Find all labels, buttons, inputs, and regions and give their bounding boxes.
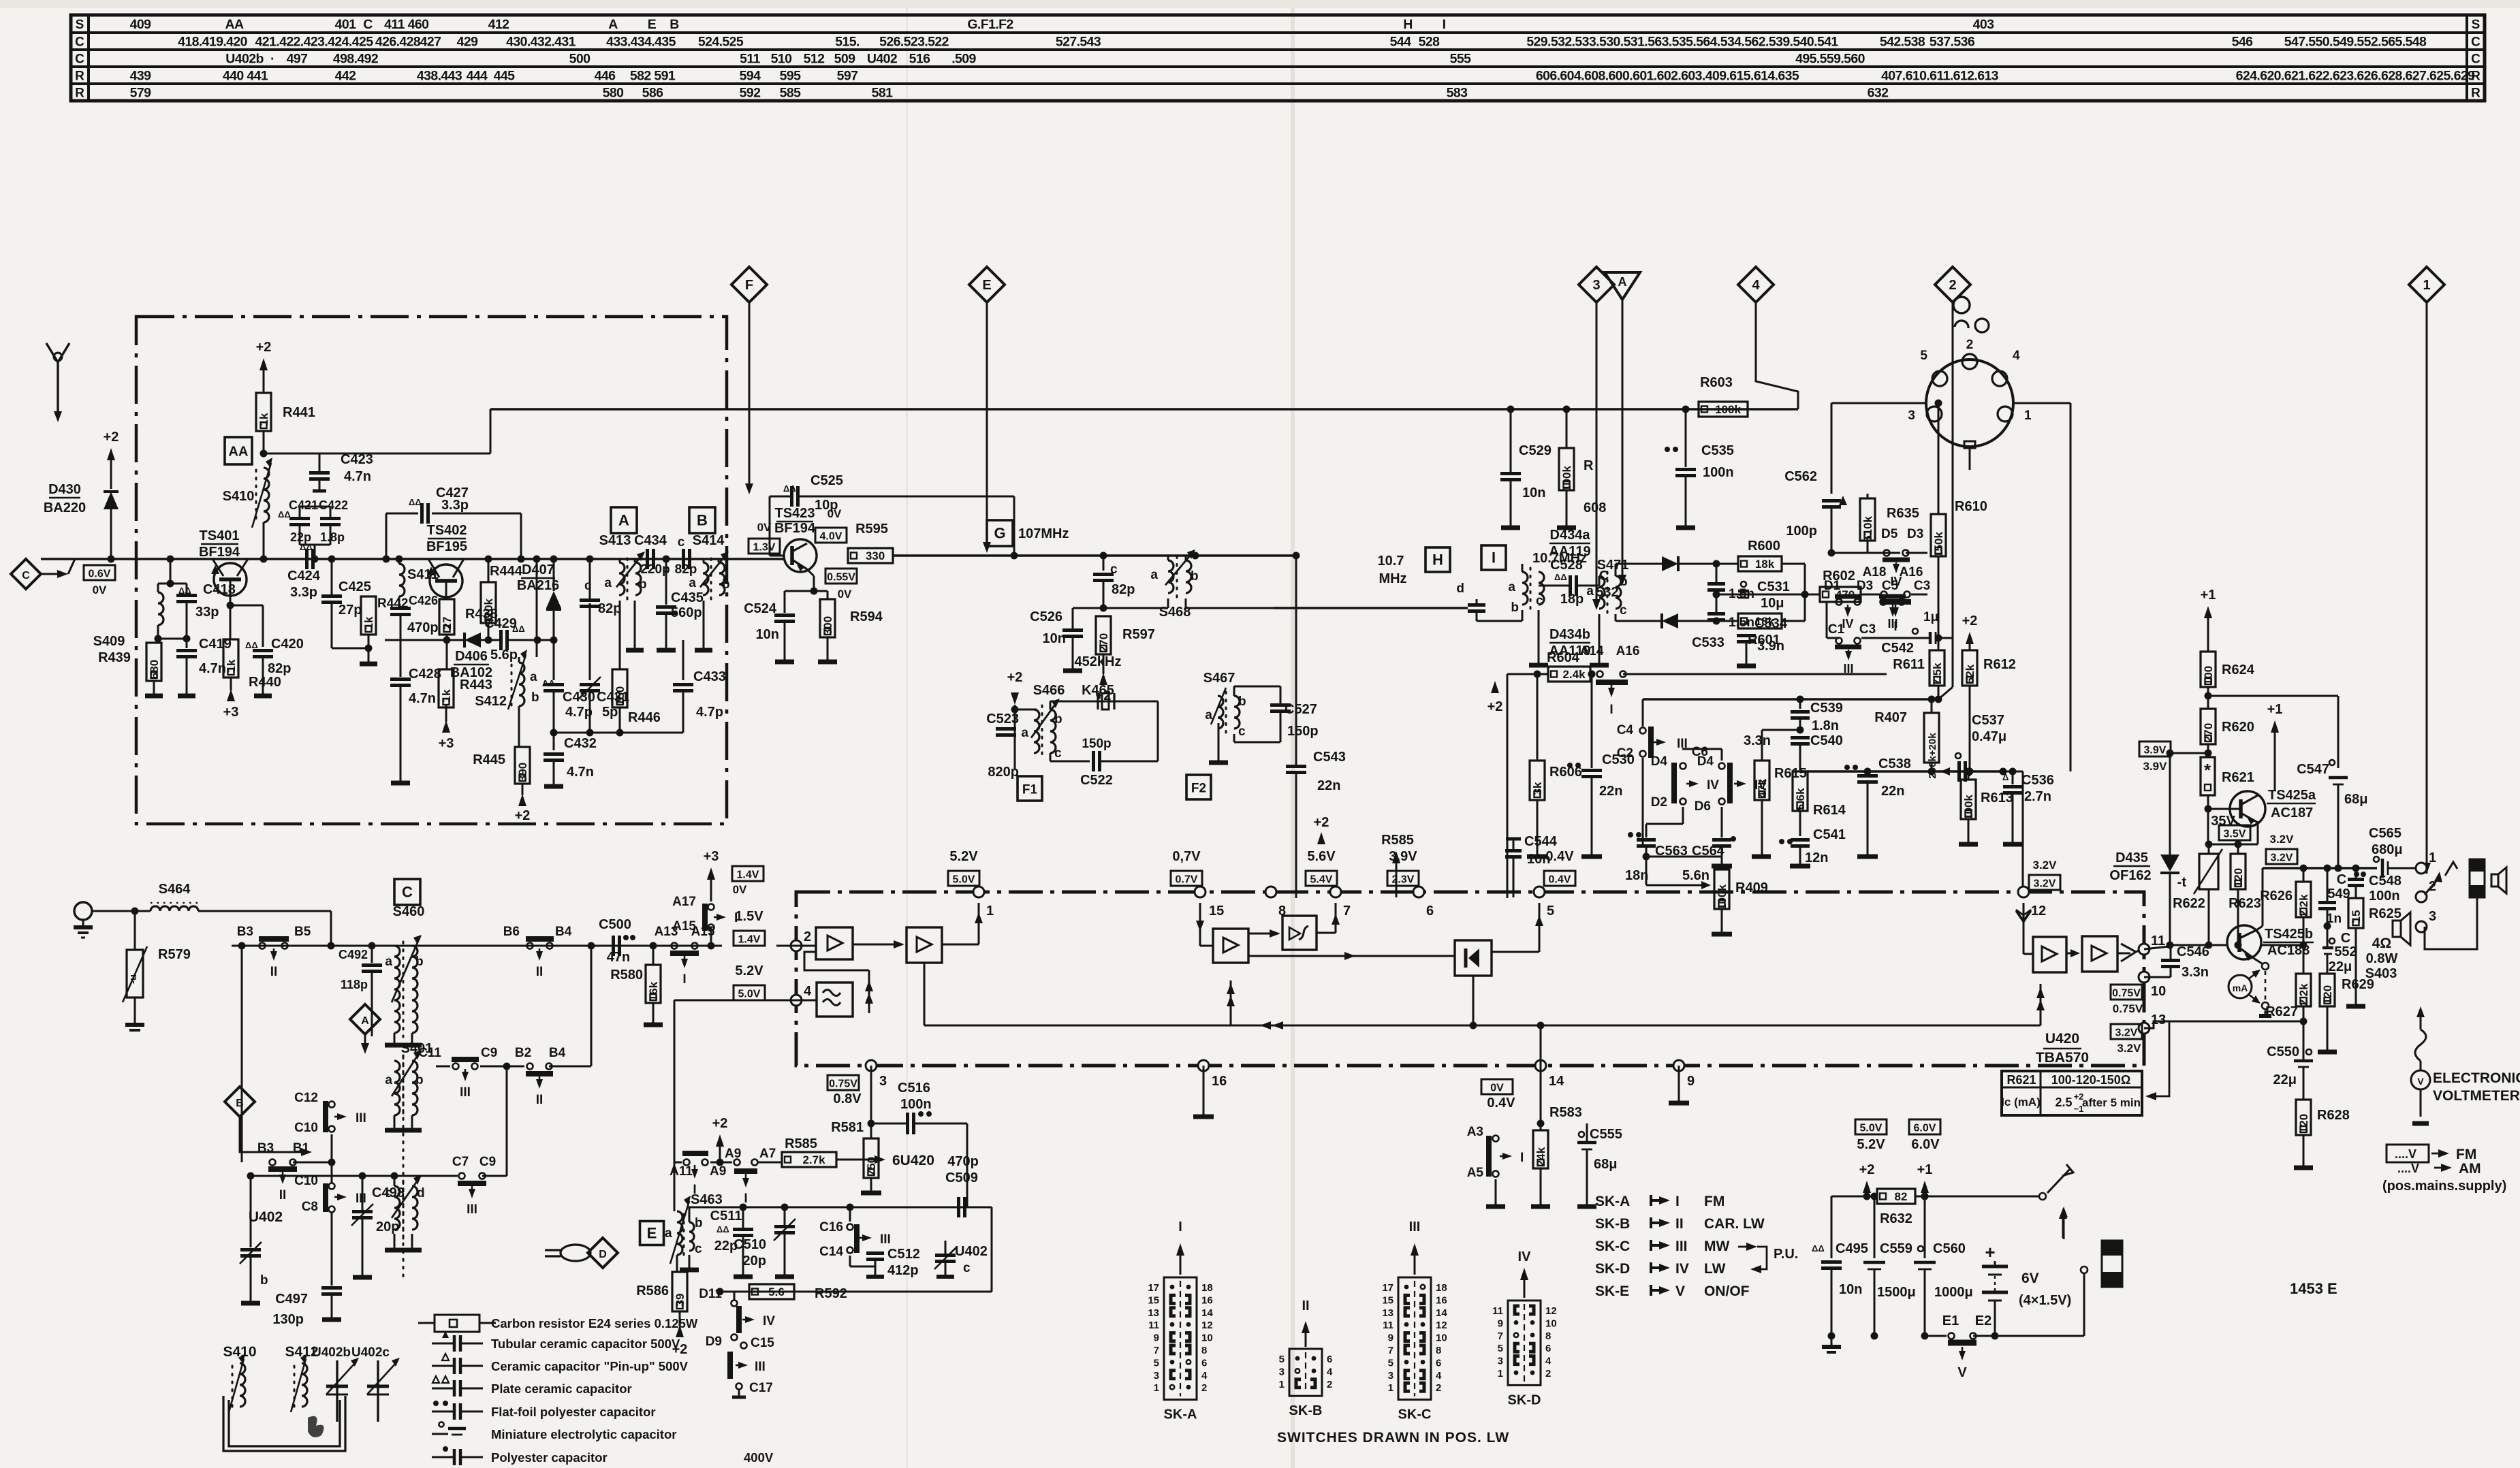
svg-text:16k: 16k xyxy=(647,981,660,1001)
svg-text:C10: C10 xyxy=(294,1121,318,1135)
wire TS425a emitter down xyxy=(2257,823,2259,844)
svg-text:BA102: BA102 xyxy=(450,665,492,680)
legend plate ceramic capacitor xyxy=(432,1388,454,1390)
wire 2 down xyxy=(1952,302,1954,687)
svg-text:C550: C550 xyxy=(2267,1044,2299,1059)
svg-text:220k: 220k xyxy=(482,599,495,624)
wire left supply down xyxy=(1507,674,1509,898)
tuning gang U402c osc xyxy=(935,1254,956,1257)
svg-text:ΔΔ: ΔΔ xyxy=(278,509,291,520)
svg-text:7: 7 xyxy=(1388,1345,1393,1356)
svg-text:I: I xyxy=(1609,703,1613,717)
svg-text:586: 586 xyxy=(642,86,663,101)
svg-text:0.75V: 0.75V xyxy=(829,1079,857,1090)
svg-text:D9: D9 xyxy=(706,1335,722,1349)
capacitor C529 10n xyxy=(1507,406,1515,413)
svg-text:*: * xyxy=(2204,760,2211,780)
svg-text:2: 2 xyxy=(1949,278,1956,293)
resistor R602 470 xyxy=(1744,594,1805,596)
svg-text:R581: R581 xyxy=(831,1120,864,1135)
svg-text:E: E xyxy=(982,278,991,293)
svg-text:AA: AA xyxy=(225,17,244,32)
svg-text:S466: S466 xyxy=(1033,683,1065,698)
svg-text:R: R xyxy=(75,86,84,101)
wire A down xyxy=(1622,300,1624,577)
svg-text:III: III xyxy=(356,1111,366,1126)
svg-text:III: III xyxy=(467,1202,477,1217)
svg-text:D3: D3 xyxy=(1907,527,1923,541)
capacitor C526 82p xyxy=(1100,552,1107,560)
svg-text:10: 10 xyxy=(1201,1333,1213,1344)
wire A11 down to S463 xyxy=(674,1162,676,1211)
wire C537 node xyxy=(1967,771,2023,773)
svg-text:BF195: BF195 xyxy=(426,539,467,554)
svg-text:B2: B2 xyxy=(515,1046,531,1060)
svg-text:C420: C420 xyxy=(271,637,304,652)
svg-text:C562: C562 xyxy=(1784,469,1817,484)
svg-text:I: I xyxy=(682,972,686,987)
audio amp block 5 xyxy=(2033,937,2066,972)
svg-text:I: I xyxy=(1492,549,1496,567)
svg-text:6U420: 6U420 xyxy=(892,1153,934,1168)
svg-text:Polyester capacitor: Polyester capacitor xyxy=(491,1450,608,1465)
svg-text:4.7n: 4.7n xyxy=(409,691,436,706)
svg-text:R624: R624 xyxy=(2222,663,2255,677)
resistor R627 2.2k xyxy=(2296,974,2311,1006)
pin 6 xyxy=(1413,887,1424,897)
svg-text:II: II xyxy=(270,965,278,979)
svg-text:526.523.522: 526.523.522 xyxy=(879,35,949,50)
svg-text:82p: 82p xyxy=(268,661,291,676)
svg-text:SWITCHES DRAWN IN POS. LW: SWITCHES DRAWN IN POS. LW xyxy=(1277,1430,1509,1446)
svg-text:0.4V: 0.4V xyxy=(1545,849,1574,864)
svg-text:22n: 22n xyxy=(1317,778,1340,793)
svg-text:0.55V: 0.55V xyxy=(827,572,855,584)
svg-text:10.7: 10.7 xyxy=(1378,554,1404,569)
svg-text:V: V xyxy=(2417,1076,2424,1087)
svg-text:after 5 min: after 5 min xyxy=(2082,1096,2141,1109)
svg-text:SK-A: SK-A xyxy=(1595,1194,1630,1209)
svg-text:C538: C538 xyxy=(1878,756,1911,771)
switch C4 C2 xyxy=(1642,699,1644,727)
svg-text:c: c xyxy=(695,1242,702,1256)
svg-text:632: 632 xyxy=(1868,86,1889,101)
connector SK-B xyxy=(1289,1349,1322,1396)
wire pin8 supply xyxy=(1270,885,1272,897)
svg-text:Δ: Δ xyxy=(2002,772,2009,782)
capacitor C427 3.3p feedback xyxy=(385,513,388,559)
svg-text:C509: C509 xyxy=(945,1170,978,1185)
capacitor C533 1.5n xyxy=(1716,594,1718,613)
svg-text:S463: S463 xyxy=(691,1192,723,1207)
svg-text:0V: 0V xyxy=(838,588,852,601)
svg-text:R610: R610 xyxy=(1955,499,1987,514)
gang coil S410 xyxy=(240,1363,245,1407)
svg-text:ΔΔ: ΔΔ xyxy=(409,497,422,507)
node A diamond xyxy=(350,1004,380,1034)
svg-text:500: 500 xyxy=(569,52,590,67)
svg-text:581: 581 xyxy=(872,86,893,101)
capacitor C525 10p feedback xyxy=(769,496,771,556)
wire A11 feed xyxy=(674,1127,676,1162)
svg-text:6.0V: 6.0V xyxy=(1914,1123,1936,1134)
connector F xyxy=(731,267,767,302)
svg-text:III: III xyxy=(755,1360,766,1374)
svg-text:516: 516 xyxy=(909,52,930,67)
svg-text:421.422.423.424.425: 421.422.423.424.425 xyxy=(255,35,374,50)
svg-text:d: d xyxy=(1456,581,1464,596)
svg-text:BF194: BF194 xyxy=(199,545,240,560)
svg-text:D2: D2 xyxy=(1651,795,1667,810)
svg-text:F2: F2 xyxy=(1191,782,1206,796)
wire to pin2 xyxy=(711,945,722,946)
wire node 1258 xyxy=(1646,856,1722,858)
svg-text:a: a xyxy=(385,955,392,969)
svg-text:5.2V: 5.2V xyxy=(735,963,763,978)
svg-text:430.432.431: 430.432.431 xyxy=(506,35,576,50)
voltage 0.75V 0.8V pin3 xyxy=(828,1075,859,1090)
resistor R628 120 xyxy=(2296,1100,2311,1135)
svg-text:R445: R445 xyxy=(473,752,505,767)
wire detector down xyxy=(1540,1025,1541,1066)
wire pin 15 down xyxy=(1199,903,1201,946)
gang basket box xyxy=(223,1396,345,1451)
svg-text:a: a xyxy=(1508,580,1515,594)
svg-text:C512: C512 xyxy=(887,1247,920,1262)
capacitor C530 22n xyxy=(1588,671,1596,678)
ground S460 xyxy=(394,1033,396,1045)
svg-text:a: a xyxy=(689,576,696,590)
svg-text:C536: C536 xyxy=(2021,773,2054,788)
svg-text:B4: B4 xyxy=(555,925,572,939)
svg-text:10n: 10n xyxy=(1522,485,1545,500)
svg-text:b: b xyxy=(531,690,539,705)
jack switch arrow xyxy=(2425,877,2440,895)
legend polyester capacitor xyxy=(432,1456,454,1458)
svg-text:82p: 82p xyxy=(598,601,621,616)
svg-text:SK-B: SK-B xyxy=(1595,1216,1630,1232)
svg-text:20p: 20p xyxy=(376,1219,399,1234)
svg-text:403: 403 xyxy=(1973,17,1994,32)
svg-text:+2: +2 xyxy=(1487,699,1503,714)
svg-text:R621: R621 xyxy=(2006,1073,2036,1087)
AM antenna xyxy=(74,902,92,920)
svg-text:411: 411 xyxy=(384,17,405,32)
svg-text:1k: 1k xyxy=(257,413,270,426)
wire R441 junction to supply line xyxy=(319,453,490,455)
svg-text:3.9V: 3.9V xyxy=(2144,745,2167,756)
svg-text:ELECTRONIC: ELECTRONIC xyxy=(2433,1070,2520,1086)
resistor R615 47k xyxy=(1754,761,1769,800)
svg-text:0.8W: 0.8W xyxy=(2366,951,2398,966)
svg-text:2: 2 xyxy=(1966,338,1974,352)
svg-text:680μ: 680μ xyxy=(2372,842,2403,857)
meter break contacts xyxy=(2262,963,2269,970)
svg-text:I: I xyxy=(734,911,738,925)
svg-text:10: 10 xyxy=(1436,1333,1447,1344)
svg-text:G: G xyxy=(994,525,1005,542)
svg-text:TBA570: TBA570 xyxy=(2036,1050,2089,1066)
capacitor C425 27p xyxy=(331,559,333,595)
svg-text:2.4k: 2.4k xyxy=(1562,668,1586,681)
capacitor C526 10n lower xyxy=(1103,608,1104,616)
svg-text:20p: 20p xyxy=(743,1254,766,1268)
svg-text:100p: 100p xyxy=(1786,524,1817,539)
svg-text:A18: A18 xyxy=(1863,565,1887,579)
svg-text:S464: S464 xyxy=(159,882,191,897)
svg-text:C560: C560 xyxy=(1933,1241,1966,1256)
svg-text:C529: C529 xyxy=(1519,443,1552,458)
svg-text:8: 8 xyxy=(1545,1330,1551,1342)
svg-text:C: C xyxy=(402,884,413,901)
svg-text:C: C xyxy=(75,52,84,67)
svg-text:C16: C16 xyxy=(819,1220,843,1234)
svg-text:1μ: 1μ xyxy=(1923,610,1938,624)
svg-text:5.0V: 5.0V xyxy=(1860,1123,1883,1134)
svg-text:ΔΔ: ΔΔ xyxy=(783,483,796,494)
svg-text:5: 5 xyxy=(1388,1357,1393,1369)
svg-text:+2: +2 xyxy=(1962,613,1978,628)
junction and down wire xyxy=(588,942,595,950)
svg-text:13: 13 xyxy=(1382,1307,1393,1319)
svg-text:100: 100 xyxy=(2202,666,2215,685)
svg-text:3: 3 xyxy=(1908,409,1915,423)
svg-text:TS423: TS423 xyxy=(775,506,815,521)
svg-text:H: H xyxy=(1432,552,1443,569)
svg-text:S: S xyxy=(2472,18,2480,32)
pin 2 xyxy=(791,940,802,951)
svg-text:5: 5 xyxy=(1154,1357,1159,1369)
wire pin2 line xyxy=(232,945,722,947)
wire 4 down xyxy=(1756,302,1798,409)
svg-text:B1: B1 xyxy=(293,1141,310,1155)
svg-text:82p: 82p xyxy=(1112,582,1135,597)
svg-text:SK-E: SK-E xyxy=(1595,1283,1629,1299)
svg-text:1k: 1k xyxy=(440,689,453,702)
svg-text:S412: S412 xyxy=(475,694,507,709)
svg-text:Ic (mA): Ic (mA) xyxy=(2001,1096,2041,1108)
wire TS425b collector xyxy=(2256,926,2263,930)
svg-text:5: 5 xyxy=(1547,904,1554,919)
svg-text:C3: C3 xyxy=(1859,622,1876,637)
svg-text:1.5V: 1.5V xyxy=(735,909,763,924)
svg-text:+2: +2 xyxy=(1007,670,1023,685)
svg-text:G.F1.F2: G.F1.F2 xyxy=(967,17,1013,32)
svg-text:-u: -u xyxy=(127,974,139,984)
pin 15 xyxy=(1195,887,1206,897)
svg-text:c: c xyxy=(1054,746,1062,761)
svg-text:C511: C511 xyxy=(710,1209,742,1224)
svg-text:R632: R632 xyxy=(1880,1211,1912,1226)
svg-text:b: b xyxy=(639,577,647,592)
box C xyxy=(394,879,420,905)
svg-text:3.3p: 3.3p xyxy=(290,585,317,600)
svg-text:582 591: 582 591 xyxy=(630,69,676,84)
svg-text:18n: 18n xyxy=(1625,868,1648,883)
svg-text:D407: D407 xyxy=(522,562,554,577)
svg-text:511: 511 xyxy=(740,52,760,67)
svg-text:C526: C526 xyxy=(1030,609,1062,624)
svg-text:1000μ: 1000μ xyxy=(1934,1285,1973,1300)
component index table xyxy=(71,15,2485,101)
svg-text:5.4V: 5.4V xyxy=(1310,874,1333,886)
svg-text:C539: C539 xyxy=(1810,701,1843,716)
svg-text:LW: LW xyxy=(1704,1261,1726,1277)
wire S460 to B6 xyxy=(412,945,524,947)
svg-text:426.428: 426.428 xyxy=(375,35,421,50)
svg-text:+1: +1 xyxy=(1917,1162,1933,1177)
svg-text:22μ: 22μ xyxy=(2273,1072,2297,1087)
resistor R442 1k xyxy=(361,596,376,635)
connector 4 xyxy=(1738,267,1774,302)
svg-text:b: b xyxy=(1054,712,1062,727)
svg-text:CAR. LW: CAR. LW xyxy=(1704,1216,1765,1232)
svg-text:12: 12 xyxy=(1436,1320,1447,1331)
svg-text:Miniature electrolytic capacit: Miniature electrolytic capacitor xyxy=(491,1427,676,1441)
svg-text:27p: 27p xyxy=(338,603,362,618)
svg-text:SK-D: SK-D xyxy=(1508,1392,1541,1407)
svg-text:C523: C523 xyxy=(986,712,1019,727)
arrow IV xyxy=(1847,605,1848,611)
svg-text:R600: R600 xyxy=(1748,539,1780,554)
svg-text:+3: +3 xyxy=(439,736,454,751)
arrow table to meter line xyxy=(2151,1021,2169,1096)
svg-text:5.2V: 5.2V xyxy=(949,849,978,864)
electrolytic C547 68u xyxy=(2329,760,2335,765)
svg-text:0.75V: 0.75V xyxy=(2113,1002,2143,1015)
svg-text:ΔΔ: ΔΔ xyxy=(245,640,258,650)
svg-text:C495: C495 xyxy=(1836,1241,1868,1256)
svg-text:7: 7 xyxy=(1154,1345,1159,1356)
table R621 Ic xyxy=(2002,1071,2142,1115)
svg-text:0V: 0V xyxy=(1490,1083,1504,1094)
svg-text:22μ: 22μ xyxy=(2329,959,2352,974)
svg-text:MW: MW xyxy=(1704,1239,1729,1254)
svg-text:680: 680 xyxy=(148,660,161,679)
svg-text:100k: 100k xyxy=(1962,795,1975,820)
capacitor C433 4.7p xyxy=(682,640,684,680)
svg-text:c: c xyxy=(678,535,685,549)
transistor TS425b AC188 xyxy=(2227,925,2261,959)
svg-text:A7: A7 xyxy=(759,1147,776,1161)
capacitor C535 100n xyxy=(1682,406,1690,413)
svg-text:I: I xyxy=(744,1192,747,1206)
svg-text:150k: 150k xyxy=(1932,532,1945,558)
svg-text:100k: 100k xyxy=(1716,884,1729,910)
svg-text:9: 9 xyxy=(1388,1333,1393,1344)
svg-text:AA119: AA119 xyxy=(1549,544,1590,559)
svg-text:b: b xyxy=(1620,575,1628,589)
ground S466 xyxy=(1122,730,1123,776)
svg-text:10n: 10n xyxy=(1043,631,1066,646)
resistor R611 7.5k xyxy=(1935,635,1942,642)
svg-text:1: 1 xyxy=(1154,1382,1159,1394)
svg-text:D11: D11 xyxy=(699,1287,722,1301)
wire plug leads xyxy=(2062,1213,2064,1238)
svg-text:9: 9 xyxy=(1687,1074,1695,1089)
svg-text:+3: +3 xyxy=(223,705,239,720)
svg-text:1.4V: 1.4V xyxy=(737,869,759,881)
capacitor C512 412p xyxy=(849,1256,851,1266)
capacitor C492 118p xyxy=(371,946,373,963)
svg-text:R623: R623 xyxy=(2228,896,2261,911)
svg-text:4.7p: 4.7p xyxy=(565,705,593,720)
svg-text:4.7n: 4.7n xyxy=(199,661,226,676)
svg-text:440 441: 440 441 xyxy=(223,69,268,84)
svg-text:24k: 24k xyxy=(1534,1147,1547,1166)
svg-text:mA: mA xyxy=(2233,983,2248,993)
audio amp block 6 xyxy=(2082,936,2117,972)
svg-text:a: a xyxy=(1586,584,1594,599)
svg-text:R635: R635 xyxy=(1887,506,1919,521)
svg-text:3: 3 xyxy=(1498,1356,1503,1367)
svg-text:S413: S413 xyxy=(599,533,631,548)
svg-text:624.620.621.622.623.626.628.62: 624.620.621.622.623.626.628.627.625.629 xyxy=(2236,69,2475,84)
svg-text:III: III xyxy=(1675,1239,1688,1254)
svg-text:5.6: 5.6 xyxy=(768,1286,785,1298)
svg-text:6: 6 xyxy=(1426,904,1434,919)
svg-text:62k: 62k xyxy=(1964,664,1976,684)
legend PU bracket xyxy=(1746,1243,1757,1251)
svg-text:IV: IV xyxy=(1518,1249,1532,1264)
svg-text:549: 549 xyxy=(2327,887,2350,901)
connector 3 xyxy=(1579,267,1614,302)
resistor R586 39 xyxy=(676,1255,678,1272)
svg-text:1: 1 xyxy=(986,904,994,919)
svg-text:606.604.608.600.601.602.603.40: 606.604.608.600.601.602.603.409.615.614.… xyxy=(1536,69,1799,84)
svg-text:A: A xyxy=(618,512,629,529)
pin 8 xyxy=(1265,887,1276,897)
wire 1 down xyxy=(2426,302,2428,874)
svg-text:537.536: 537.536 xyxy=(1930,35,1975,50)
svg-text:C9: C9 xyxy=(481,1046,497,1060)
svg-text:18p: 18p xyxy=(1560,592,1584,607)
capacitor C431 5p trimmer xyxy=(589,603,591,680)
svg-text:C1: C1 xyxy=(1828,622,1845,637)
svg-text:C559: C559 xyxy=(1880,1241,1912,1256)
svg-text:U402: U402 xyxy=(955,1244,988,1259)
svg-text:150p: 150p xyxy=(1287,724,1319,739)
svg-text:68μ: 68μ xyxy=(2344,792,2367,807)
mains plug symbol xyxy=(2102,1241,2122,1287)
svg-text:445: 445 xyxy=(494,69,515,84)
wire S466c to ground xyxy=(1122,701,1123,702)
svg-text:II: II xyxy=(279,1188,287,1202)
svg-text:11: 11 xyxy=(1148,1320,1159,1331)
transistor TS425a AC187 xyxy=(2230,791,2265,827)
resistor R444 220k xyxy=(481,582,496,623)
wire main FM line xyxy=(41,558,785,560)
switch A9 A7 xyxy=(710,1162,732,1164)
legend tubular ceramic capacitor xyxy=(432,1343,454,1345)
svg-text:5.6V: 5.6V xyxy=(1307,849,1336,864)
svg-text:4: 4 xyxy=(1436,1370,1442,1382)
svg-text:12: 12 xyxy=(1545,1305,1557,1317)
svg-text:R580: R580 xyxy=(610,968,643,983)
svg-text:11: 11 xyxy=(1492,1305,1503,1317)
svg-text:IV: IV xyxy=(1890,575,1902,588)
resistor R445 390 xyxy=(515,747,530,784)
voltage 5.0V supply xyxy=(1855,1119,1887,1134)
svg-text:0V: 0V xyxy=(757,521,772,534)
svg-text:595: 595 xyxy=(780,69,801,84)
resistor R635 510k xyxy=(1831,552,1868,554)
svg-text:R: R xyxy=(1584,458,1594,473)
svg-text:1.4V: 1.4V xyxy=(738,934,761,946)
svg-text:+2: +2 xyxy=(1314,815,1329,830)
svg-text:.509: .509 xyxy=(951,52,976,67)
wire pin 6 stub xyxy=(1418,903,1419,934)
